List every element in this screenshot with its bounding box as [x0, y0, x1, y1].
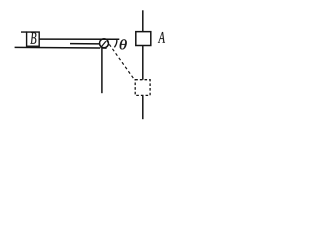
pulley circle [100, 39, 109, 48]
block B box [27, 32, 40, 46]
angle arc [114, 40, 116, 47]
vertical hanging line below pulley [101, 48, 103, 93]
block B overline extension [21, 31, 27, 33]
dashed string at angle theta [107, 41, 134, 79]
block A box [136, 32, 151, 46]
bottom string below dashed box [142, 95, 144, 119]
table surface line under block B [15, 46, 101, 49]
middle string between A and dashed box [142, 46, 144, 80]
rod top line from B to pulley area [40, 38, 120, 40]
top string above block A [142, 10, 144, 31]
label theta [120, 39, 127, 49]
pulley axle slash [101, 41, 106, 48]
rod lower line [70, 43, 100, 45]
label A [158, 32, 165, 43]
label B [30, 32, 36, 43]
table surface line right stub past pulley [103, 47, 107, 49]
dashed box (hanging position) [135, 80, 150, 96]
